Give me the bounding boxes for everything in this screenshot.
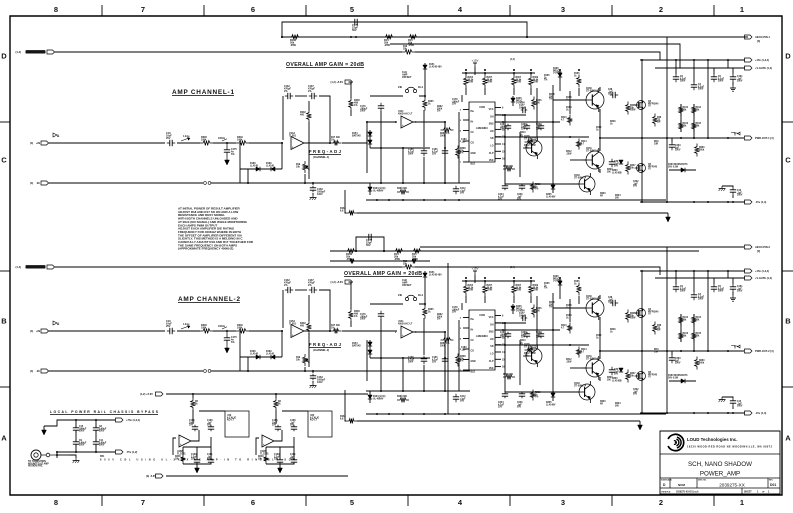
block vwires ch2 (505, 293, 579, 392)
junction (666, 137, 668, 139)
resistor R260 ch1 (695, 144, 706, 157)
svg-text:R266 300: R266 300 (397, 188, 408, 190)
capacitor C3 ch1 (691, 60, 705, 91)
rail top ch1 (462, 72, 535, 74)
junction (693, 137, 695, 139)
bus ch2 (641, 271, 643, 413)
resistor R304 ch1 (524, 140, 536, 150)
zone label bottom 7 (141, 498, 145, 507)
junction (707, 270, 709, 272)
border tick (0, 121, 793, 123)
junction (484, 72, 486, 74)
resistor R306 ch1 (532, 97, 543, 110)
resistor R260 ch2 (695, 357, 706, 370)
resistor R168 ch2 (340, 390, 357, 423)
regulator IC U20 (308, 411, 332, 437)
capacitor C204 ch2 (498, 392, 508, 409)
capacitor C162 ch2 (284, 279, 293, 293)
diode D305 ch1 (546, 182, 556, 198)
svg-text:C: C (1, 156, 7, 165)
testpoint arrow ch1 (181, 136, 190, 141)
op-amp U16B (177, 435, 191, 455)
svg-text:3: 3 (561, 5, 565, 14)
capacitor C6 ch1 (673, 60, 687, 83)
transistor Q160 ch1 (583, 88, 604, 112)
pin 10 U15 ch2 (495, 323, 505, 325)
svg-text:6: 6 (251, 498, 255, 507)
wires reg3 U16B (183, 437, 211, 464)
wire CH-PWR-ON-2 (55, 267, 661, 275)
svg-text:-: - (402, 327, 403, 331)
title company (687, 437, 737, 442)
border tick (611, 5, 613, 506)
connector AECO-PIN-1 (744, 35, 771, 43)
block hwire2 ch1 (462, 95, 579, 184)
transistor Q161 ch1 (583, 148, 604, 172)
svg-text:1: 1 (740, 498, 744, 507)
resistor R163 ch1 (679, 120, 689, 132)
wires rgrid ch1 (681, 104, 694, 132)
wire reg U16B (173, 410, 199, 455)
diode D160 ch2 (668, 375, 696, 383)
resistor R267 ch1 (483, 73, 493, 95)
pin 6 U15 ch1 (460, 152, 469, 154)
resistor bias U11B (274, 394, 282, 410)
resistor R367 ch1 (512, 73, 522, 95)
svg-text:(4): (4) (30, 141, 33, 145)
wire diode ch1 (239, 143, 241, 183)
wire +IN-1 (49, 142, 284, 144)
capacitor C16 ch2 (166, 320, 175, 334)
op-amp U14A ch1 (289, 132, 304, 150)
title block frame (660, 431, 780, 494)
resistor R349 ch2 (236, 324, 249, 333)
resistor R327 ch2 (626, 370, 637, 383)
border tick (305, 5, 307, 506)
junction (707, 350, 709, 352)
wire jack (56, 451, 58, 458)
connector -IN-1 (30, 181, 49, 185)
capacitor C263b ch1 (536, 124, 544, 131)
svg-text:-: - (263, 436, 264, 440)
wire feedback rail ch2 (330, 250, 699, 252)
resistor R306 ch2 (532, 305, 543, 318)
capacitor C16 ch1 (166, 132, 175, 146)
svg-text:+: + (292, 146, 294, 150)
svg-text:PWR-OUT-1 [4]: PWR-OUT-1 [4] (755, 136, 774, 140)
zone label top 6 (251, 5, 255, 14)
wire mid ch1 (367, 139, 430, 149)
capacitor C269 ch2 (521, 332, 530, 339)
title address (687, 446, 773, 449)
junction (680, 137, 682, 139)
pin 9 U15 ch2 (495, 316, 504, 318)
op-amp U141 ch2 (395, 320, 417, 338)
svg-text:CHKD/FLN:: CHKD/FLN: (661, 492, 671, 494)
svg-text:LME49810: LME49810 (476, 335, 488, 338)
diode D305 ch2 (546, 390, 556, 406)
block vwires ch1 (505, 85, 579, 184)
svg-text:C: C (785, 156, 791, 165)
capacitor C16b ch1 (500, 124, 511, 131)
wire offset ch2 (370, 283, 426, 305)
junction (693, 201, 695, 203)
bus ch1 (641, 60, 643, 202)
junction row ch1 (444, 114, 571, 149)
resistor R17 ch2 (402, 261, 415, 269)
svg-text:(1,2) +5.6V: (1,2) +5.6V (331, 281, 344, 284)
bus ch2 (694, 271, 728, 351)
svg-text:24H: 24H (398, 86, 403, 89)
resistor R265 ch2 (423, 304, 435, 318)
junction (281, 36, 528, 38)
svg-text:A: A (1, 434, 7, 443)
capacitor C161 ch2 (730, 278, 743, 293)
resistor R17 ch2 (331, 324, 342, 333)
ground c161 ch2 (730, 292, 736, 301)
junction (732, 201, 734, 203)
svg-text:-: - (292, 137, 293, 141)
resistor R314 ch2 (577, 347, 588, 358)
svg-text:D01: D01 (770, 483, 776, 487)
pin 3 U15 ch1 (460, 120, 469, 122)
capacitor C169 U11B (274, 454, 283, 464)
resistor R165 ch1 (692, 120, 702, 132)
wires rgrid ch2 (681, 314, 694, 342)
resistor R200 ch2 (349, 282, 361, 327)
svg-text:2: 2 (659, 498, 663, 507)
border tick (203, 5, 205, 506)
resistor R348 ch2 (200, 324, 213, 333)
resistor R186 ch2 (345, 249, 358, 261)
svg-text:A: A (785, 434, 791, 443)
label OVERALL AMP GAIN ch1 (286, 62, 364, 68)
potentiometer R19 ch1 (296, 161, 310, 173)
svg-text:6: 6 (251, 5, 255, 14)
junction (707, 201, 709, 203)
pin 11 U15 ch2 (495, 330, 505, 332)
svg-text:R312.25W: R312.25W (566, 359, 572, 363)
svg-text:-IN: -IN (36, 181, 40, 185)
resistor R314 ch1 (577, 139, 588, 150)
ground c161 ch1 (730, 82, 736, 91)
wire rail2 ch1 (390, 44, 680, 68)
resistor R168 ch1 (340, 190, 357, 215)
svg-text:SHEET: SHEET (744, 492, 752, 494)
capacitor C177 ch1 (519, 105, 527, 113)
svg-text:2H-2: 2H-2 (418, 87, 424, 89)
svg-text:(4): (4) (30, 181, 33, 185)
wire reg2 U11B (282, 410, 308, 412)
wire feedback top ch2 (356, 237, 384, 252)
svg-text:+: + (292, 334, 294, 338)
pin 5 U15 ch2 (460, 349, 469, 351)
zone label bottom 4 (458, 498, 463, 507)
resistor R263 ch2 (440, 338, 453, 348)
svg-text:+15V: +15V (471, 59, 478, 63)
resistor R248 U11B (258, 454, 268, 464)
capacitor C9 (73, 440, 87, 447)
junction dots ch2 (355, 250, 580, 415)
rail top ch2 (462, 280, 535, 282)
wire gain ch1 (283, 96, 331, 144)
svg-text:B: B (785, 317, 791, 326)
transistor Q165 ch2 (523, 344, 542, 367)
load icon ch1 (731, 132, 740, 136)
svg-text:NOM: NOM (678, 483, 686, 487)
junction (675, 270, 677, 272)
pin 7 U15 ch2 (460, 370, 469, 372)
zone label left D (1, 52, 7, 61)
diode D168 ch1 (240, 163, 282, 183)
wire bottom ch2 (357, 420, 640, 422)
diode D169 ch2 (266, 330, 283, 359)
connector +5.6V ch2 (331, 280, 353, 284)
junction (693, 412, 695, 414)
capacitor C176 ch1 (360, 103, 384, 113)
pin 16 U15 ch2 (495, 367, 505, 369)
svg-text:+: + (180, 443, 182, 447)
svg-text:2039275-XX: 2039275-XX (719, 483, 745, 488)
logo LOUD (668, 434, 684, 450)
resistor R186 ch1 (289, 35, 302, 47)
svg-text:2: 2 (659, 5, 663, 14)
svg-text:-: - (292, 325, 293, 329)
connector +5.6V ch1 (331, 80, 353, 84)
junction row ch2 (444, 322, 571, 359)
resistor R295 ch2 (531, 390, 542, 401)
svg-text:16220 WOOD-RED ROAD NE WOODINV: 16220 WOOD-RED ROAD NE WOODINVILLE, WA 9… (687, 446, 773, 449)
zone label right C (785, 156, 791, 165)
junction (641, 350, 643, 352)
resistor R308 ch1 (456, 146, 467, 159)
zone label left A (1, 434, 7, 443)
rail +15V right ch1 (640, 58, 769, 62)
svg-text:R266 300: R266 300 (397, 396, 408, 398)
transistor Q165 ch1 (523, 136, 542, 159)
transistor Q163 ch2 (574, 381, 595, 403)
svg-text:(3) -5.6V: (3) -5.6V (146, 474, 156, 478)
svg-text:-75v (1,2): -75v (1,2) (126, 450, 137, 454)
label FREQ-ADJ ch2 (309, 342, 342, 352)
junction (693, 59, 695, 61)
capacitor C163 ch2 (305, 367, 326, 384)
transistor Q161 ch2 (583, 356, 604, 380)
capacitor C168 ch2 (408, 356, 427, 364)
ground c10 ch1 (719, 186, 733, 191)
junction (465, 280, 467, 282)
driver IC U15 LME49810 ch2 (469, 310, 495, 374)
svg-text:(1,2) +5.6V: (1,2) +5.6V (331, 81, 344, 84)
title name2 (700, 471, 740, 478)
pin 5 U15 ch1 (460, 141, 469, 143)
chassis jack J1 (31, 450, 58, 460)
junction (465, 72, 467, 74)
pin 13 U15 ch1 (495, 137, 505, 139)
capacitor C15 (73, 426, 87, 433)
capacitor C8 (93, 426, 107, 433)
junction (484, 280, 486, 282)
capacitor C161 ch1 (730, 68, 743, 83)
capacitor C33 ch2 (609, 367, 620, 376)
resistor R263 ch1 (440, 128, 453, 138)
wire opamp out ch2 (304, 330, 397, 332)
diode D164 ch1 (368, 183, 386, 195)
pin 14 U15 ch1 (495, 143, 505, 146)
wire diode ch2 (239, 331, 241, 371)
junction (732, 412, 734, 414)
svg-text:AMP CHANNEL-2: AMP CHANNEL-2 (178, 296, 240, 303)
block hwire ch1 (495, 115, 589, 137)
capacitor C177 ch2 (519, 313, 527, 321)
resistor R17 ch1 (402, 46, 415, 54)
ground arrow left (42, 420, 64, 435)
svg-text:(1,4): (1,4) (16, 265, 22, 269)
wire reg U11B (256, 410, 282, 455)
jumper pads ch2 (204, 370, 211, 373)
transistor Q163 ch1 (574, 173, 595, 195)
connector CH-PWR-ON-2 (16, 265, 55, 269)
junction (513, 280, 515, 282)
junction (641, 137, 643, 139)
capacitor C168b U16B (207, 420, 214, 431)
resistor R264 ch1 (464, 73, 474, 95)
wires reg3 U11B (266, 437, 294, 464)
pin 10 U15 ch1 (495, 115, 505, 117)
capacitor C165 ch2 (432, 356, 448, 364)
mosfet Q5 ch1 (635, 164, 658, 173)
ground freq ch1 (310, 193, 317, 200)
junction (693, 350, 695, 352)
svg-text:+15V: +15V (471, 267, 478, 271)
wire -75V (57, 451, 116, 453)
junction (355, 250, 385, 252)
resistor R295 ch1 (531, 182, 542, 193)
pin 4 U15 ch2 (460, 338, 469, 341)
svg-text:LOCAL POWER RAIL CHASSIS BYPAS: LOCAL POWER RAIL CHASSIS BYPASS (50, 410, 159, 414)
connector CH-PWR-ON-1 (16, 50, 55, 54)
jumper CH2 AMP OFFSET (398, 279, 424, 301)
wire reg2 U16B (199, 410, 225, 412)
capacitor C3 ch2 (691, 271, 705, 301)
ground reg U16B (195, 464, 200, 473)
junction (727, 270, 729, 272)
svg-text:POWER_AMP: POWER_AMP (700, 471, 740, 478)
svg-text:1.2ms: 1.2ms (183, 324, 190, 326)
pin 7 U15 ch1 (460, 162, 469, 164)
resistor R46 ch2 (653, 322, 662, 335)
capacitor C172 22pF (366, 234, 374, 247)
connector -5.6V (146, 474, 163, 478)
resistor R296 ch2 (503, 374, 515, 379)
resistor R165 ch1 (574, 73, 581, 87)
resistor R296 ch1 (503, 166, 515, 171)
wire +IN-2 (49, 330, 284, 332)
wire +75V (64, 419, 116, 421)
resistor R200 ch1 (349, 82, 361, 116)
label FREQ-ADJ ch1 (309, 149, 342, 159)
capacitor C10 ch2 (730, 398, 743, 409)
arrow to -V ch1 (666, 213, 671, 222)
jumper CH1 AMP OFFSET (398, 71, 424, 93)
arrow to -V ch2 (638, 421, 643, 430)
connector +5.6V supply (140, 392, 163, 396)
capacitor C263 ch1 (669, 138, 681, 152)
svg-text:AECO-PIN-1: AECO-PIN-1 (755, 35, 771, 39)
zone label bottom 8 (54, 498, 58, 507)
capacitor C212 ch2 (453, 394, 466, 403)
resistor R162 ch1 (679, 104, 689, 116)
svg-text:+15v (1,3,4): +15v (1,3,4) (755, 58, 769, 62)
capacitor C166 U16B (189, 420, 198, 431)
capacitor C212 ch1 (453, 186, 466, 195)
block bottom ch1 (366, 199, 666, 201)
wire bottom ch1 (357, 212, 668, 214)
wire rail2 ch2 (330, 260, 430, 262)
capacitor C168b U11B (290, 420, 297, 431)
wire -IN-2 (49, 370, 471, 372)
zone label right B (785, 317, 791, 326)
pin 4 U15 ch1 (460, 130, 469, 133)
capacitor C161b U11B (290, 454, 297, 464)
resistor R304 ch2 (524, 348, 536, 358)
power +15V ch2 (471, 267, 478, 284)
junction (675, 59, 677, 61)
capacitor C6 ch2 (673, 271, 687, 293)
pin 14 U15 ch2 (495, 351, 505, 354)
junction (727, 201, 729, 203)
svg-text:SCH, NANO SHADOW: SCH, NANO SHADOW (688, 461, 752, 468)
connector PWR-OUT-1 (745, 136, 774, 140)
wires q ch1 (553, 87, 601, 173)
svg-text:5: 5 (350, 5, 354, 14)
svg-text:U14B: U14B (479, 314, 485, 317)
pin 2 U15 ch1 (460, 110, 469, 112)
svg-text:-15v (1,4): -15v (1,4) (755, 411, 766, 415)
title sheet (744, 490, 770, 494)
svg-text:8: 8 (54, 498, 58, 507)
input marker A ch2 (53, 321, 60, 326)
ground chassis jack (57, 455, 79, 463)
note text (178, 207, 254, 251)
zone label left C (1, 156, 7, 165)
connector +75V (116, 418, 141, 422)
svg-text:[4]: [4] (757, 249, 760, 253)
svg-text:(4): (4) (30, 369, 33, 373)
resistor R348 ch1 (200, 136, 213, 145)
junction input ch2 (226, 330, 228, 332)
rail -15V ch2 (640, 411, 766, 415)
capacitor C169 U16B (191, 454, 200, 464)
capacitor C167 ch2 (308, 279, 317, 293)
svg-text:(1,4): (1,4) (510, 58, 515, 61)
wire u141 out ch1 (413, 121, 446, 123)
junction (727, 350, 729, 352)
resistor R327 ch1 (626, 162, 637, 175)
junction (707, 137, 709, 139)
label 100Hz ch1 (218, 137, 227, 141)
zone label bottom 3 (561, 498, 565, 507)
svg-text:100Hz: 100Hz (218, 137, 226, 140)
resistor R325 ch2 (626, 310, 637, 323)
diode D151 ch1 (423, 63, 442, 75)
capacitor C171 22pF (352, 19, 360, 32)
svg-text:U14B: U14B (479, 106, 485, 109)
capacitor C166 U11B (272, 420, 281, 431)
diode D406 ch2 (511, 304, 526, 314)
capacitor C263 ch2 (669, 351, 681, 365)
svg-text:-: - (180, 436, 181, 440)
